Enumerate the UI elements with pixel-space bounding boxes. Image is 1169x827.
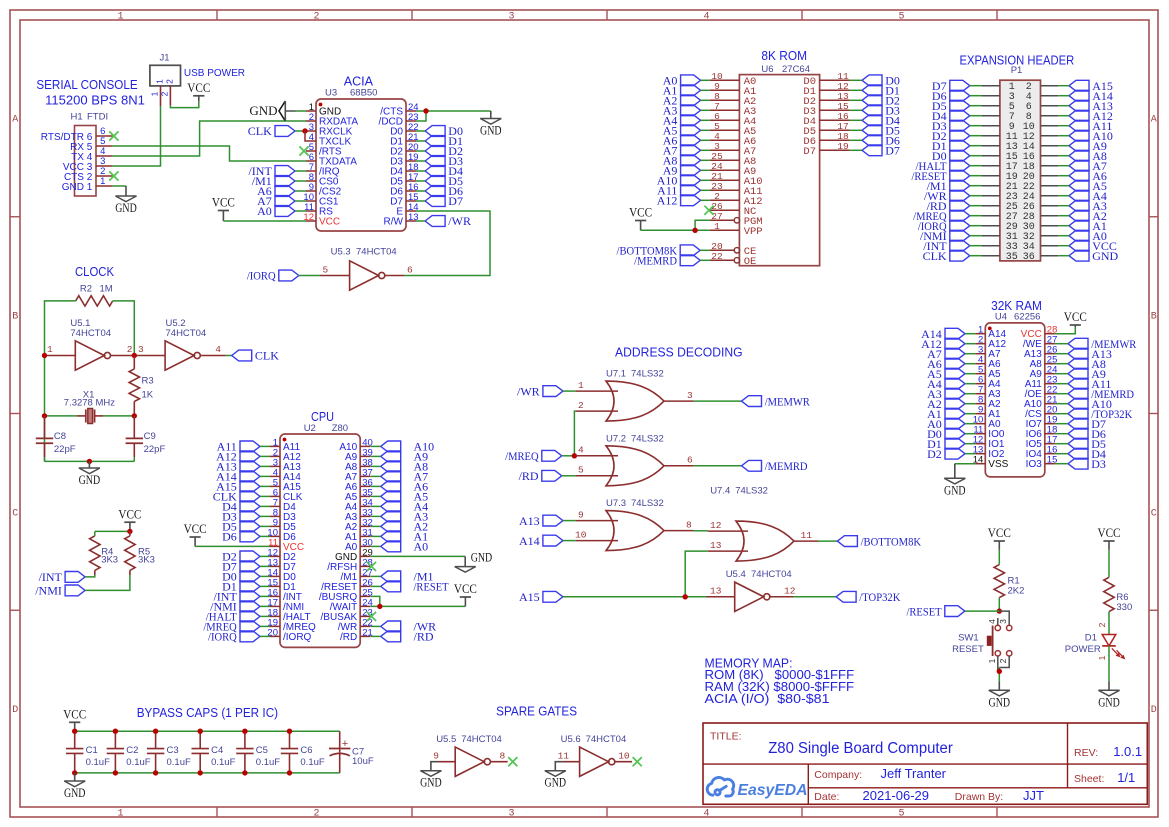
ROM pin 17 D5 <box>803 121 849 138</box>
wire P1 to A8 flag <box>1058 155 1069 157</box>
U7.4 output pin 11 <box>794 530 818 541</box>
IC U2 Z80 CPU pin 6 CLK <box>270 487 303 503</box>
wire SW1 to GND <box>998 668 1000 682</box>
svg-text:8: 8 <box>499 750 505 761</box>
wire A12 flag to CPU <box>260 455 270 457</box>
IC U2 Z80 CPU pin 17 /NMI <box>267 597 304 613</box>
junction C4 bottom <box>198 770 203 775</box>
U7.2 pin 5 <box>576 465 618 476</box>
wire /RESET flag to P1 <box>970 175 982 177</box>
net flag CLK <box>248 124 295 138</box>
net flag A2 at P1 <box>1069 209 1107 223</box>
svg-text:Jeff Tranter: Jeff Tranter <box>881 766 947 781</box>
net flag /INT at CPU <box>213 590 260 604</box>
IC U2 Z80 CPU pin 2 A12 <box>270 447 301 463</box>
VCC power at ACIA pin 12 <box>212 196 235 221</box>
wire CLK flag to CPU <box>260 495 270 497</box>
P1 pin 24 A4 <box>1023 192 1059 203</box>
net flag D5 at CPU <box>222 520 260 534</box>
GND power at CPU pin 29 <box>455 550 493 572</box>
GND power at U5.5 input <box>420 762 442 790</box>
svg-text:/MREQ: /MREQ <box>505 449 539 463</box>
VCC bar <box>212 196 235 211</box>
wire /INT flag to P1 <box>970 245 982 247</box>
wire /WR to U7.1 pin 1 <box>563 390 576 392</box>
net flag A3 at ROM <box>663 104 701 118</box>
net flag D5 at RAM <box>1068 437 1106 451</box>
GND power at clock <box>79 461 101 487</box>
wire ACIA to D6 flag <box>416 190 425 192</box>
net flag D0 at ACIA <box>425 124 463 138</box>
IC U4 62256 32K RAM pin 22 /OE <box>1025 385 1058 401</box>
svg-text:/NMI: /NMI <box>35 584 62 598</box>
svg-text:0.1uF: 0.1uF <box>126 757 150 768</box>
GND power at RAM VSS <box>944 464 966 498</box>
IC U4 62256 32K RAM pin 5 A5 <box>975 365 1001 381</box>
net flag A13 at RAM <box>1068 347 1112 361</box>
J1 pin 1 <box>150 86 161 106</box>
wire A4 flag to RAM <box>965 383 975 385</box>
IC U3 ACIA 68B50 body <box>316 74 406 232</box>
wire RAM to D7 flag <box>1055 423 1068 425</box>
net flag A1 at P1 <box>1069 219 1107 233</box>
svg-text:Sheet:: Sheet: <box>1074 773 1104 785</box>
IC U4 62256 32K RAM pin 11 IO0 <box>973 425 1004 441</box>
svg-text:CLK: CLK <box>248 124 272 138</box>
wire A15 to U5.4 <box>563 596 707 598</box>
wire /MEMRD to ROM OE <box>700 259 710 261</box>
svg-text:3: 3 <box>508 12 514 23</box>
svg-text:GND: GND <box>249 103 277 118</box>
net flag /WR input <box>517 384 563 398</box>
svg-text:BYPASS CAPS (1 PER IC): BYPASS CAPS (1 PER IC) <box>137 705 278 720</box>
wire P1 to A7 flag <box>1058 165 1069 167</box>
IC U2 Z80 CPU pin 39 A9 <box>345 447 373 463</box>
svg-text:GND: GND <box>1098 695 1120 709</box>
net flag /MREQ at P1 <box>913 209 970 223</box>
resistor R6 <box>1104 577 1114 611</box>
wire D7 flag to CPU <box>260 565 270 567</box>
net flag A7 at CPU <box>381 471 401 482</box>
svg-text:R3: R3 <box>142 375 154 386</box>
U7.1 pin 1 <box>576 380 618 391</box>
wire /NMI flag to CPU <box>260 605 270 607</box>
IC U3 ACIA 68B50 pin 23 /DCD <box>379 112 419 128</box>
frame column numbers top <box>117 12 904 23</box>
junction reset node <box>997 608 1002 613</box>
capacitor C5 leads <box>244 731 246 773</box>
IC U3 ACIA 68B50 pin 16 D6 <box>390 182 418 198</box>
ROM pin 19 D7 <box>803 141 849 158</box>
junction C1 top <box>72 729 77 734</box>
wire A6 flag to ROM <box>701 139 710 141</box>
svg-text:GND: GND <box>1092 249 1118 263</box>
svg-text:10: 10 <box>618 750 630 761</box>
svg-text:B: B <box>1151 312 1157 323</box>
svg-text:ACIA (I/O) $80-$81: ACIA (I/O) $80-$81 <box>705 692 830 706</box>
svg-text:74HCT04: 74HCT04 <box>586 734 627 745</box>
junction C2 bottom <box>113 770 118 775</box>
wire RAM VSS to GND <box>955 463 976 465</box>
svg-text:VCC: VCC <box>63 708 86 722</box>
net flag /RD at P1 <box>927 199 970 213</box>
svg-text:D1: D1 <box>1085 633 1097 644</box>
OR gate U7.2 <box>606 446 664 486</box>
ROM pin 22 OE <box>710 251 757 268</box>
wire R6 to D1 <box>1108 612 1110 635</box>
wire D2 flag to P1 <box>970 135 982 137</box>
net flag A4 at ROM <box>663 114 701 128</box>
net flag D4 at ROM <box>862 114 900 128</box>
svg-text:5: 5 <box>323 265 329 276</box>
wire ACIA pin3 to pin4 loop <box>305 131 306 141</box>
OR gate U7.3 <box>606 511 664 551</box>
net flag /RD at CPU <box>381 631 401 642</box>
U5.6 output pin 10 <box>615 750 632 761</box>
VCC power at bypass caps <box>63 708 86 732</box>
net flag A11 at ROM <box>657 184 700 198</box>
label C9 22pF <box>144 431 166 455</box>
wire J1.1 to H1.3 VCC <box>112 106 160 166</box>
title block REV <box>1074 744 1142 759</box>
svg-text:H1: H1 <box>71 112 83 123</box>
capacitor C7 polarized <box>329 731 350 773</box>
wire A2 flag to ROM <box>701 99 710 101</box>
net flag D2 at ACIA <box>425 144 463 158</box>
svg-text:U7.3: U7.3 <box>606 498 626 509</box>
svg-text:D7: D7 <box>448 194 463 208</box>
net flag A7 at ACIA <box>257 194 295 208</box>
net flag D6 at RAM <box>1068 427 1106 441</box>
svg-text:ACIA: ACIA <box>344 74 374 89</box>
net flag /RESET at CPU <box>381 581 401 592</box>
svg-text:P1: P1 <box>1011 65 1023 76</box>
label C8 22pF <box>54 431 76 455</box>
svg-text:9: 9 <box>433 750 439 761</box>
wire /IORQ flag to CPU <box>260 635 270 637</box>
P1 pin 20 A6 <box>1023 172 1059 183</box>
IC U3 ACIA 68B50 pin 13 R/W <box>384 212 419 228</box>
svg-text:1: 1 <box>150 91 160 96</box>
resistor R2 <box>76 296 113 306</box>
wire U5.2 output to CLK flag <box>226 355 232 357</box>
U7.2 pin 4 <box>576 445 618 456</box>
IC U4 62256 32K RAM pin 26 A13 <box>1024 345 1057 361</box>
net flag /TOP32K <box>836 590 901 604</box>
net flag /MREQ at CPU <box>203 620 260 634</box>
VCC power at CPU pin 11 <box>184 522 207 546</box>
label U5.1 74HCT04 <box>70 318 111 339</box>
IC U2 Z80 CPU pin 21 /RD <box>340 627 373 643</box>
net flag /MEMWR at RAM <box>1068 337 1136 351</box>
net flag A10 at ROM <box>657 174 701 188</box>
net flag D1 at ROM <box>862 84 900 98</box>
svg-text:3: 3 <box>138 344 144 355</box>
wire RAM to D6 flag <box>1055 433 1068 435</box>
VCC power at CPU /WAIT <box>454 582 477 606</box>
net flag A10 at CPU <box>381 441 401 452</box>
junction C3 bottom <box>153 770 158 775</box>
svg-text:2: 2 <box>127 344 133 355</box>
net flag A1 at RAM <box>927 407 965 421</box>
IC U3 ACIA 68B50 pin 15 D7 <box>390 192 418 208</box>
P1 pin 36 GND <box>1023 252 1059 263</box>
svg-text:A: A <box>1151 115 1157 126</box>
frame column ticks top <box>217 10 997 20</box>
net flag D6 at CPU <box>222 530 260 544</box>
ROM pin 21 A10 <box>710 171 763 188</box>
net flag A13 at CPU <box>216 460 260 474</box>
svg-text:SPARE GATES: SPARE GATES <box>496 704 577 719</box>
IC U4 62256 32K RAM body <box>985 298 1045 477</box>
net flag A1 at ROM <box>663 84 701 98</box>
svg-text:22: 22 <box>711 251 723 262</box>
IC U4 62256 32K RAM pin 27 /WE <box>1023 335 1057 351</box>
svg-text:U6: U6 <box>761 64 773 75</box>
IC U2 Z80 CPU pin 26 /RESET <box>321 577 373 593</box>
wire A0 flag to ROM <box>701 79 710 81</box>
svg-text:/BOTTOM8K: /BOTTOM8K <box>861 534 922 548</box>
svg-text:2: 2 <box>1097 622 1107 627</box>
no-connect X ACIA /RTS <box>299 146 308 155</box>
svg-text:1: 1 <box>47 344 53 355</box>
OR gate U7.4 <box>736 521 794 561</box>
wire ACIA E to U5.3 output <box>404 211 490 276</box>
wire VCC rail to R4 <box>95 530 130 532</box>
svg-text:1K: 1K <box>142 389 154 400</box>
VCC bar <box>454 582 477 597</box>
label X1 7.3278 MHz <box>64 389 115 408</box>
IC U4 62256 32K RAM pin 2 A12 <box>975 335 1006 351</box>
svg-text:74HCT04: 74HCT04 <box>461 734 502 745</box>
ROM pin 26 NC <box>710 201 757 218</box>
svg-text:A15: A15 <box>519 590 540 604</box>
frame row ticks left <box>10 217 20 611</box>
net flag A9 at P1 <box>1069 139 1107 153</box>
IC U2 Z80 CPU pin 32 A2 <box>345 517 373 533</box>
svg-text:D: D <box>12 705 18 716</box>
svg-text:/RD: /RD <box>519 469 539 483</box>
IC U4 62256 32K RAM pin 23 A11 <box>1025 375 1058 391</box>
wire U7.4 pin 13 to A15 junction <box>685 551 708 597</box>
net flag D0 at RAM <box>927 427 965 441</box>
svg-text:5: 5 <box>578 465 584 476</box>
svg-text:J1: J1 <box>159 53 169 64</box>
wire CPU to A6 flag <box>370 485 380 487</box>
svg-text:19: 19 <box>837 141 849 152</box>
P1 pin 3 D6 <box>982 92 1015 103</box>
svg-text:U7.4: U7.4 <box>710 485 730 496</box>
svg-text:U7.2: U7.2 <box>606 433 626 444</box>
net flag /NMI <box>35 584 85 598</box>
svg-text:VCC: VCC <box>1098 526 1121 540</box>
label C2 0.1uF <box>126 745 150 768</box>
wire RAM to A11 flag <box>1055 383 1068 385</box>
resistor R5 leads <box>129 531 131 575</box>
svg-text:D7: D7 <box>885 144 900 158</box>
wire D3 flag to P1 <box>970 125 982 127</box>
svg-text:GND: GND <box>989 695 1011 709</box>
capacitor C5 <box>236 749 253 754</box>
svg-text:/RD: /RD <box>414 630 434 644</box>
IC U2 Z80 CPU pin 9 D5 <box>270 517 296 533</box>
IC U4 62256 32K RAM pin 9 A1 <box>975 405 1001 421</box>
GND symbol <box>455 550 493 572</box>
wire A1 flag to ROM <box>701 89 710 91</box>
net flag A8 at RAM <box>1068 357 1106 371</box>
wire RAM to A13 flag <box>1055 353 1068 355</box>
net flag D3 at CPU <box>222 510 260 524</box>
svg-text:74LS32: 74LS32 <box>631 498 664 509</box>
net flag D7 at ROM <box>862 144 900 158</box>
svg-text:2: 2 <box>313 809 319 820</box>
svg-text:GND: GND <box>471 550 493 564</box>
capacitor C8 leads <box>44 416 46 457</box>
wire A15 flag to CPU <box>260 485 270 487</box>
wire ACIA to D5 flag <box>416 180 425 182</box>
svg-text:VCC: VCC <box>988 526 1011 540</box>
IC U3 ACIA 68B50 pin 1 GND <box>306 102 341 118</box>
VCC power at R6 <box>1098 526 1121 550</box>
wire CPU to A8 flag <box>370 465 380 467</box>
GND net flag at ACIA pin 1 <box>249 101 295 121</box>
wire P1 to A13 flag <box>1058 105 1069 107</box>
svg-text:/IORQ: /IORQ <box>283 632 312 643</box>
net flag /IORQ <box>247 269 299 283</box>
label C6 0.1uF <box>300 745 324 768</box>
no-connect X U5.6 output <box>633 757 642 766</box>
P1 pin 22 A5 <box>1023 182 1059 193</box>
net flag A10 at RAM <box>1068 397 1112 411</box>
P1 pin 32 A0 <box>1023 232 1059 243</box>
svg-text:/RESET: /RESET <box>906 604 942 618</box>
svg-text:74HCT04: 74HCT04 <box>70 328 111 339</box>
U5.5 output pin 8 <box>490 750 507 761</box>
net flag A4 at P1 <box>1069 189 1107 203</box>
svg-text:0.1uF: 0.1uF <box>167 757 191 768</box>
svg-text:36: 36 <box>1023 252 1035 263</box>
P1 pin 9 D3 <box>982 122 1015 133</box>
svg-text:D7: D7 <box>803 146 816 158</box>
svg-text:10uF: 10uF <box>352 756 374 767</box>
svg-text:8: 8 <box>686 519 692 530</box>
wire A10 flag to ROM <box>701 179 710 181</box>
inverter U5.1 input pin 1 <box>45 344 76 356</box>
label U7.2 74LS32 <box>606 433 664 444</box>
no-connect X CPU /BUSAK <box>367 612 376 621</box>
svg-text:SW1: SW1 <box>958 633 979 644</box>
capacitor C9 leads <box>133 416 135 457</box>
svg-text:C2: C2 <box>126 745 138 756</box>
IC U4 62256 32K RAM pin 16 IO4 <box>1026 445 1058 461</box>
resistor R1 <box>994 565 1004 598</box>
capacitor C6 leads <box>289 731 291 773</box>
svg-text:1: 1 <box>714 221 720 232</box>
svg-text:35: 35 <box>1006 252 1018 263</box>
svg-text:C5: C5 <box>256 745 268 756</box>
IC U2 Z80 CPU body <box>280 409 360 647</box>
wire P1 to A4 flag <box>1058 195 1069 197</box>
IC U3 ACIA 68B50 pin 11 RS <box>304 202 333 218</box>
IC U4 62256 32K RAM pin 10 A0 <box>973 415 1001 431</box>
net flag A14 at P1 <box>1069 89 1113 103</box>
net flag A14 at CPU <box>216 470 260 484</box>
svg-text:R2: R2 <box>80 284 92 295</box>
net flag D7 at RAM <box>1068 417 1106 431</box>
net flag A5 at ROM <box>663 124 701 138</box>
wire U7.1 pin2 to /MREQ junction <box>574 411 575 456</box>
IC U2 Z80 CPU pin 30 A0 <box>345 537 373 553</box>
no-connect X CPU /RFSH <box>367 562 376 571</box>
wire A0 flag to ACIA <box>295 210 306 212</box>
net flag D3 at RAM <box>1068 457 1106 471</box>
resistor R3 <box>129 369 139 402</box>
P1 pin 21 /M1 <box>982 182 1018 193</box>
U7.3 pin 10 <box>575 529 618 540</box>
svg-text:D: D <box>1151 705 1157 716</box>
net flag /NMI at P1 <box>920 229 970 243</box>
svg-text:3K3: 3K3 <box>101 555 118 566</box>
IC U3 ACIA 68B50 pin 5 /RTS <box>306 142 342 158</box>
wire U7.2 out to /MEMRD <box>694 465 742 467</box>
ROM pin 6 A4 <box>710 111 757 128</box>
IC U2 Z80 CPU pin 18 /HALT <box>267 607 310 623</box>
net flag D3 at ROM <box>862 104 900 118</box>
wire CPU to /WR flag <box>370 625 380 627</box>
svg-text:GND: GND <box>64 786 86 800</box>
wire RAM to /MEMRD flag <box>1055 393 1068 395</box>
svg-text:Company:: Company: <box>814 769 862 781</box>
net flag CLK output <box>232 349 280 363</box>
svg-text:0.1uF: 0.1uF <box>211 757 235 768</box>
net flag A8 at ROM <box>663 154 701 168</box>
IC U4 62256 32K RAM pin 4 A6 <box>975 355 1001 371</box>
wire CPU /BUSRQ /WAIT to VCC <box>370 596 465 606</box>
IC U4 62256 32K RAM pin 28 VCC <box>1021 325 1058 341</box>
svg-text:VCC: VCC <box>187 81 210 95</box>
svg-text:C: C <box>1151 509 1157 520</box>
wire CPU to A0 flag <box>370 545 380 547</box>
svg-text:GND: GND <box>480 124 502 138</box>
wire /INT flag to ACIA <box>295 170 306 172</box>
wire A13 flag to CPU <box>260 465 270 467</box>
net flag D6 at P1 <box>932 89 970 103</box>
net flag A6 at ROM <box>663 134 701 148</box>
capacitor C3 leads <box>155 731 157 773</box>
IC U2 Z80 CPU pin 14 D0 <box>267 567 296 583</box>
wire D0 flag to RAM <box>965 433 975 435</box>
IC U2 Z80 CPU pin 1 A11 <box>270 437 300 453</box>
wire A3 flag to RAM <box>965 393 975 395</box>
wire A3 flag to ROM <box>701 109 710 111</box>
svg-text:U5.6: U5.6 <box>561 734 581 745</box>
wire D1 flag to RAM <box>965 443 975 445</box>
resistor R4 <box>90 536 100 571</box>
wire ACIA to D1 flag <box>416 140 425 142</box>
net flag A15 at P1 <box>1069 79 1113 93</box>
P1 pin 23 /WR <box>982 192 1018 203</box>
svg-text:10: 10 <box>575 529 587 540</box>
svg-text:/TOP32K: /TOP32K <box>859 590 900 604</box>
net flag A2 at ROM <box>663 94 701 108</box>
svg-text:74HCT04: 74HCT04 <box>751 569 792 580</box>
GND power at SW1 <box>989 681 1011 709</box>
svg-text:68B50: 68B50 <box>350 88 377 99</box>
net flag A0 at CPU <box>381 541 401 552</box>
svg-text:6: 6 <box>687 455 693 466</box>
svg-text:VSS: VSS <box>988 459 1008 470</box>
svg-text:2: 2 <box>165 79 175 84</box>
